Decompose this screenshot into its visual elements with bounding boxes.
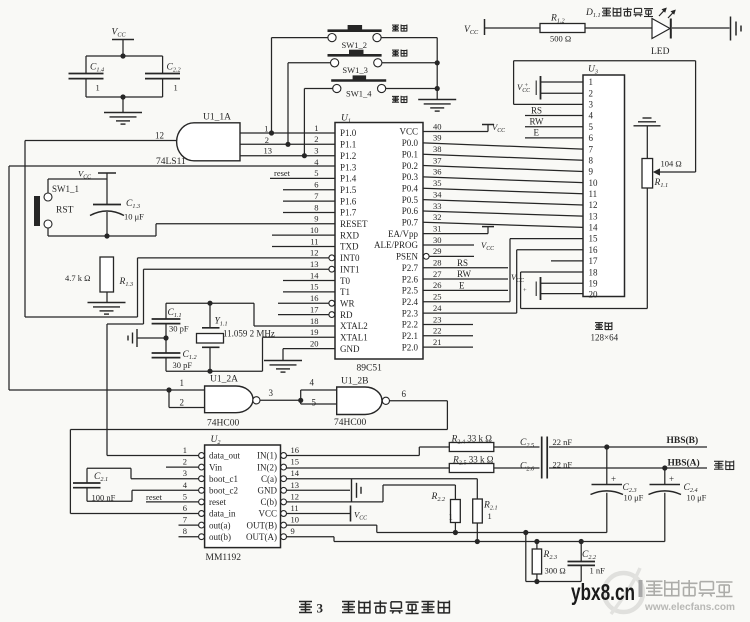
svg-text:reset: reset [274,168,291,178]
svg-text:11: 11 [291,503,299,513]
ground at LED cathode (rotated) [731,17,742,41]
svg-text:RS: RS [457,258,468,268]
label D1.1 power indicator text [585,8,653,20]
U1 right pin name labels [374,127,419,353]
svg-text:E: E [534,128,540,138]
svg-text:12: 12 [155,131,164,141]
svg-text:1 nF: 1 nF [590,566,606,576]
svg-text:P2.5: P2.5 [402,286,419,296]
svg-text:RST: RST [56,206,74,216]
svg-text:4: 4 [589,111,594,121]
switch SW1_1 reset button RST [34,184,79,228]
svg-text:P1.0: P1.0 [340,128,357,138]
figure caption: 图3 main control module circuit diagram [299,601,449,616]
svg-text:13: 13 [589,211,599,221]
svg-text:300 Ω: 300 Ω [545,566,566,576]
wire stub P2.7 pin28 with RS net label [423,258,508,268]
svg-text:MM1192: MM1192 [206,553,242,563]
svg-text:ybx8.cn: ybx8.cn [571,579,635,605]
IC U2 MM1192 modem chip body [205,435,281,563]
wire crystal top rail [166,301,254,306]
wire stub P2.0 pin21 [423,346,473,348]
svg-text:P1.6: P1.6 [340,196,357,206]
U3 pin number labels 1-20 [589,77,599,299]
label reset net at U1 pin5 [274,168,291,178]
svg-text:18: 18 [310,316,319,326]
svg-text:17: 17 [310,304,319,314]
wire U2 pin16 IN(1) to R2.4 [287,447,450,456]
svg-text:out(b): out(b) [209,532,231,542]
label LCD 128x64 [591,322,619,343]
wire XTAL2 (pin18) to crystal top rail [254,303,335,326]
svg-text:128×64: 128×64 [591,333,619,343]
wire U2 pin13 GND to ground symbol [287,489,351,491]
wire stubs U3 pins 4-6 with RS RW E labels [525,105,583,138]
svg-text:29: 29 [433,246,442,256]
battery/Vcc symbol feeding U3 pins 1-2 [517,76,583,100]
wire LED cathode to ground [672,27,730,29]
wire P2.3 pin24 to LCD pin16 [423,250,517,313]
svg-text:8: 8 [589,155,594,165]
svg-text:RW: RW [530,117,545,127]
svg-text:+: + [525,82,529,89]
wire bottom rail of decoupling block [86,94,163,112]
capacitor C2.2 (decoupling) [145,63,181,98]
svg-text:30: 30 [433,235,442,245]
wire SW1_3 right terminal to common rail, junction [382,60,440,65]
svg-text:P2.7: P2.7 [402,263,419,273]
svg-text:VCC: VCC [399,127,418,137]
svg-text:2: 2 [180,398,185,408]
svg-text:+: + [669,474,674,484]
wire U1 pin40 VCC to Vcc symbol [423,122,505,134]
wire SW1_3 left terminal down to P1.1 net [288,63,331,145]
watermark circle logo [604,568,643,614]
svg-text:14: 14 [310,270,319,280]
wire SW1_2 left terminal down to P1.0 net [272,38,328,133]
svg-text:21: 21 [433,337,442,347]
svg-text:PSEN: PSEN [396,252,419,262]
switch SW1_3 (down key) [328,50,382,75]
resistor R1.2 500 ohm [540,14,585,44]
wire C2.6 to HBS(A) output [549,458,707,471]
label 向下 for SW1_3 [392,50,407,57]
U2 left pin numbers 1-8 [183,445,188,536]
U2 left pin labels [209,451,240,542]
svg-text:HBS(A): HBS(A) [668,458,700,469]
wire U2 pin15 IN(2) to R2.5 [287,467,450,469]
svg-text:P2.3: P2.3 [402,308,419,318]
svg-text:IN(1): IN(1) [257,451,277,461]
wire R2.5 to C2.6 [494,467,540,469]
wire U2 pin3 boot_c1 to C2.1 [87,468,199,483]
wire U2 pin10 OUT(B) to rail B [287,525,377,532]
capacitor C2.1 100nF [73,472,116,503]
svg-text:7: 7 [183,515,187,525]
wire potentiometer bottom to U3 pin18 [521,188,648,309]
svg-text:5: 5 [183,491,187,501]
svg-text:P2.0: P2.0 [402,342,419,352]
svg-text:8: 8 [314,202,318,212]
svg-text:10 μF: 10 μF [687,493,707,503]
wire crystal bottom rail [166,369,263,374]
svg-text:SW1_2: SW1_2 [342,40,368,50]
svg-text:38: 38 [433,144,442,154]
capacitor C2.5 22nF [520,437,572,458]
wire R2.4 to C2.5 [494,446,540,448]
svg-text:out(a): out(a) [209,520,231,530]
svg-text:3: 3 [183,468,187,478]
wire U3 pin15 to P2.4 [510,238,583,240]
wire stub PSEN pin29 [429,255,474,257]
capacitor C1.2 30pF [152,350,197,371]
svg-text:4.7 k Ω: 4.7 k Ω [65,273,90,283]
svg-text:+: + [523,287,527,294]
svg-text:2: 2 [589,88,594,98]
svg-text:P1.3: P1.3 [340,162,357,172]
capacitor C2.6 22nF [520,458,572,479]
svg-text:2: 2 [183,457,187,467]
svg-text:17: 17 [589,256,599,266]
svg-text:GND: GND [258,486,278,496]
svg-text:C(a): C(a) [261,474,277,484]
node between C1.1 and C1.2 to ground [137,335,169,340]
svg-text:22 nF: 22 nF [553,437,573,447]
svg-text:18: 18 [589,267,599,277]
svg-text:+: + [611,474,616,484]
svg-text:9: 9 [589,167,594,177]
svg-text:IN(2): IN(2) [257,462,277,472]
svg-text:13: 13 [264,146,273,156]
svg-text:15: 15 [310,282,319,292]
svg-text:P1.7: P1.7 [340,208,357,218]
wire U2 pin9 OUT(A) to rail A [287,537,335,542]
ground at MCU pin 20 [264,361,302,373]
svg-text:P2.6: P2.6 [402,274,419,284]
svg-text:RESET: RESET [340,219,368,229]
svg-text:XTAL1: XTAL1 [340,333,368,343]
svg-text:OUT(A): OUT(A) [246,532,277,542]
svg-text:8: 8 [183,526,187,536]
svg-text:32: 32 [433,212,442,222]
U1 inversion bubbles INT0 INT1 WR RD PSEN [329,253,429,317]
svg-text:1: 1 [488,511,492,521]
IC U1 89C51 microcontroller body [335,114,423,374]
svg-text:GND: GND [340,344,360,354]
ground for key switches [418,100,456,112]
svg-text:12: 12 [291,491,300,501]
U2 right pin labels [246,451,277,542]
ground below R1.3 [88,303,126,315]
wire AND input 2 to MCU P1.1, junction with SW1_3 [240,135,335,147]
wire C2.5 to HBS(B) output [549,435,707,450]
svg-text:16: 16 [310,293,319,303]
svg-text:14: 14 [589,223,599,233]
svg-text:3: 3 [589,100,594,110]
svg-text:1: 1 [180,378,185,388]
ground below decoupling caps [104,113,142,125]
wire MCU GND pin20 to ground [283,349,335,361]
wire Vcc rail to capacitors C1.4/C2.2 [86,53,163,73]
capacitor C2.4 10uF electrolytic [649,468,707,542]
label 向上 for SW1_2 [392,25,407,32]
svg-text:6: 6 [314,180,318,190]
svg-text:35: 35 [433,178,442,188]
ground above potentiometer (pointing up) [634,118,661,126]
svg-text:13: 13 [310,259,319,269]
wire SW1_2 right terminal to common ground rail [381,38,437,100]
svg-text:7: 7 [314,191,318,201]
wire reset node: switch bottom, cap bottom, to MCU RESET pin 9 [48,224,335,239]
svg-text:2: 2 [314,134,318,144]
wire stub U3 pin17 [551,260,583,262]
svg-text:89C51: 89C51 [357,364,383,374]
wire rail OUT(A) net [334,539,665,544]
svg-text:6: 6 [183,503,187,513]
svg-text:34: 34 [433,189,442,199]
wire AND input 13 to MCU P1.2, junction with SW1_4 [240,146,335,159]
resistor R2.5 33k [449,455,494,473]
svg-text:3: 3 [314,146,318,156]
potentiometer R1.1 104 ohm [642,126,682,189]
wire net AND-12 output to INT0 routing [25,141,329,318]
svg-text:26: 26 [433,280,442,290]
svg-text:EA/Vpp: EA/Vpp [388,229,418,239]
capacitor C1.3 10uF electrolytic [90,199,144,236]
svg-text:3: 3 [269,388,274,398]
U2 pin bubbles [199,453,287,540]
svg-text:19: 19 [310,327,319,337]
switch SW1_2 (up key) [328,25,382,50]
svg-text:104 Ω: 104 Ω [661,159,682,169]
svg-text:74HC00: 74HC00 [334,418,366,428]
svg-text:11: 11 [589,189,598,199]
label bus (zongxian) [714,461,734,471]
capacitor C2.2 1nF [568,542,606,582]
resistor R2.4 33k [449,434,494,452]
svg-text:1: 1 [174,83,178,93]
wire reset-switch top to Vcc [48,179,107,193]
svg-text:C(b): C(b) [261,497,278,507]
watermark elecfans logo text [639,580,736,613]
wire U1_2A output pin3 to U1_2B inputs [260,378,337,408]
wire SW1_4 left terminal down to P1.2 net [304,89,332,156]
svg-text:T1: T1 [340,287,350,297]
svg-text:10: 10 [589,178,599,188]
svg-text:P2.1: P2.1 [402,331,418,341]
wire U3 pin16 to P2.3 [517,249,583,251]
wire rail OUT(B) net [377,530,607,535]
svg-text:INT1: INT1 [340,264,360,274]
label 确定 for SW1_4 [392,96,407,103]
svg-text:33: 33 [433,201,442,211]
svg-text:11: 11 [310,236,318,246]
svg-text:data_in: data_in [209,509,236,519]
svg-text:1: 1 [314,123,318,133]
svg-text:3: 3 [317,601,324,616]
svg-text:24: 24 [433,303,442,313]
svg-text:22: 22 [433,326,442,336]
wire U2 pin12 C(b) to R2.2 [287,485,456,502]
svg-text:T0: T0 [340,276,350,286]
svg-text:data_out: data_out [209,451,240,461]
svg-text:P0.2: P0.2 [402,161,418,171]
svg-text:reset: reset [146,492,163,502]
svg-text:RD: RD [340,310,353,320]
wire U2 pin14 C(a) to R2.1 [287,479,478,499]
svg-text:WR: WR [340,298,355,308]
svg-text:P0.5: P0.5 [402,195,419,205]
svg-text:P0.3: P0.3 [402,172,419,182]
IC U3 LCD module body [583,65,625,297]
svg-text:10 μF: 10 μF [124,212,144,222]
svg-text:10 μF: 10 μF [624,493,644,503]
svg-text:10: 10 [291,515,300,525]
wire stub U2 pin2 Vin [166,466,199,468]
svg-text:5: 5 [314,168,318,178]
wire stub P2.1 pin22 [423,335,473,337]
wire stub P2.5 pin26 with E net label [423,281,508,291]
Vcc symbol for LED branch [464,19,485,36]
svg-text:19: 19 [589,278,599,288]
op-amp style AND gate U1_1A 74LS11 (mirrored) [156,113,240,168]
capacitor C1.4 [69,63,105,98]
svg-text:9: 9 [291,526,295,536]
wire U2 pin11 VCC to Vcc tick [287,506,368,522]
svg-text:10: 10 [310,225,319,235]
svg-text:P0.4: P0.4 [402,183,419,193]
svg-text:P0.0: P0.0 [402,138,419,148]
svg-text:36: 36 [433,167,442,177]
svg-text:12: 12 [310,248,319,258]
svg-text:VCC: VCC [258,509,277,519]
svg-text:P0.7: P0.7 [402,218,419,228]
U1 right pin number labels [433,121,442,347]
svg-text:U1_1A: U1_1A [203,113,231,123]
battery/Vcc symbol feeding U3 pins 19-20 [511,272,583,300]
svg-text:1: 1 [449,512,453,522]
svg-text:P0.6: P0.6 [402,206,419,216]
svg-text:P1.5: P1.5 [340,185,357,195]
switch SW1_4 (enter key) [331,75,386,98]
svg-text:500 Ω: 500 Ω [550,34,571,44]
U2 right pin numbers 16-9 [291,445,300,536]
resistor R2.2 [431,492,461,533]
wire stub U2 pin5 with reset net label [146,492,199,502]
svg-text:20: 20 [589,290,599,300]
svg-text:74HC00: 74HC00 [207,419,239,429]
svg-text:OUT(B): OUT(B) [247,520,278,530]
svg-text:25: 25 [433,292,442,302]
svg-text:16: 16 [291,445,300,455]
svg-text:6: 6 [589,133,594,143]
svg-text:6: 6 [402,389,407,399]
wire U1 pin31 EA/Vpp to Vcc symbol [423,227,494,252]
svg-text:13: 13 [291,480,300,490]
svg-text:23: 23 [433,314,442,324]
top-left decoupling block: Vcc power symbol [112,28,135,57]
svg-text:TXD: TXD [340,242,359,252]
svg-text:28: 28 [433,258,442,268]
resistor R1.3 4.7k pulldown [65,257,133,303]
svg-text:SW1_4: SW1_4 [346,88,372,98]
U1 left pin name labels [340,128,368,354]
wire branch from rail B down around R2.3/C2.2 [526,533,581,585]
wire AND input 1 to MCU P1.0, junction with SW1_2 [240,124,335,136]
svg-text:HBS(B): HBS(B) [667,435,699,446]
svg-text:40: 40 [433,121,442,131]
svg-text:RS: RS [531,105,542,115]
svg-text:U1_2A: U1_2A [210,375,238,385]
wire U2 pin4 boot_c2 to C2.1 [87,488,199,502]
resistor R2.1 [473,499,498,542]
svg-text:30 pF: 30 pF [169,324,189,334]
svg-text:39: 39 [433,133,442,143]
U1 left pin number labels [310,123,319,349]
svg-text:boot_c2: boot_c2 [209,486,238,496]
NAND gate U1_2A 74HC00 (as inverter) [205,375,260,429]
svg-text:37: 37 [433,155,442,165]
wire U1_2A tied inputs [9,378,205,408]
svg-text:LED: LED [651,47,670,57]
Vcc symbol for reset circuit [78,169,116,205]
svg-text:9: 9 [314,214,318,224]
wire AND gate output pin 12 [25,131,177,141]
wire P2.4 pin25 to LCD pin15 [423,239,510,302]
wire R1.2 to LED D1.1 [585,27,652,29]
ground for crystal caps (rotated left) [128,329,137,347]
svg-text:1: 1 [589,77,594,87]
svg-text:27: 27 [433,269,442,279]
svg-text:INT0: INT0 [340,253,360,263]
svg-text:4: 4 [310,378,315,388]
NAND gate U1_2B 74HC00 (as inverter) [334,377,390,429]
svg-text:15: 15 [589,234,599,244]
svg-text:SW1_1: SW1_1 [52,184,79,194]
svg-text:30 pF: 30 pF [173,360,193,370]
wire stub ALE pin30 [423,244,474,246]
watermark ybx8.cn [571,579,635,605]
wire stubs on U1 left side [270,178,335,314]
svg-text:5: 5 [589,122,594,132]
svg-text:P1.1: P1.1 [340,140,356,150]
svg-text:1: 1 [264,124,268,134]
wire U3 pin3 contrast loop to potentiometer wiper [514,61,696,176]
wire stub U2 pin8 out(b) [179,536,199,538]
svg-text:P1.2: P1.2 [340,151,356,161]
wire U1_2B output pin6 routed to U2 data_in [70,389,447,514]
svg-text:P2.2: P2.2 [402,320,418,330]
svg-text:7: 7 [589,144,594,154]
resistor R2.3 300 ohm [532,542,566,582]
wire SW1_4 right terminal to common rail, junction [386,86,440,91]
svg-text:16: 16 [589,245,599,255]
capacitor C1.1 30pF [152,303,189,353]
svg-text:reset: reset [209,497,226,507]
svg-text:U1_2B: U1_2B [341,377,368,387]
svg-text:5: 5 [312,398,317,408]
svg-text:14: 14 [291,468,300,478]
svg-text:ALE/PROG: ALE/PROG [374,240,419,250]
svg-text:Vin: Vin [209,462,222,472]
svg-text:20: 20 [310,338,319,348]
crystal Y1.1 11.0592 MHz [197,303,275,371]
wire XTAL1 (pin19) to crystal bottom rail [263,337,336,371]
wire stub U2 pin7 out(a) [179,524,199,526]
svg-text:www.elecfans.com: www.elecfans.com [644,602,735,613]
LED D1.1 with indicator arrows [651,8,676,58]
svg-text:P2.4: P2.4 [402,297,419,307]
